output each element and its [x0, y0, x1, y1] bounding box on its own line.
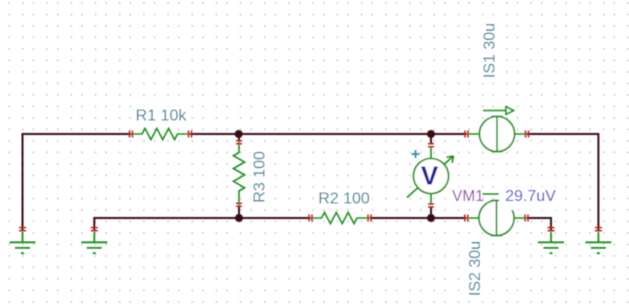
wire VM1 top stub [430, 134, 432, 145]
terminal marks R2 [309, 215, 371, 222]
svg-text:VM1: VM1 [452, 188, 484, 205]
resistor R1 [131, 128, 190, 139]
ground G4 [585, 232, 611, 253]
terminal marks R1 [130, 131, 192, 138]
voltmeter VM1 [407, 147, 454, 205]
terminal marks IS2 [465, 215, 528, 222]
wire bottom rail left: ground riser + bottom rail to R2 left node [94, 218, 310, 231]
terminal marks G1 [19, 228, 26, 231]
voltmeter plus sign [412, 150, 420, 158]
wire bottom rail middle: R2 right node to IS2 left node [370, 217, 466, 219]
terminal marks G3 [548, 228, 555, 231]
junction node top-right (VM1 top) [427, 130, 435, 138]
terminal marks VM1 [428, 144, 434, 207]
wire top rail left: left vertical + top rail to R1 left node [23, 134, 132, 231]
svg-text:29.7uV: 29.7uV [505, 188, 556, 205]
wire bottom rail right: IS2 right node to ground G3 [527, 218, 551, 231]
label background VM1 [451, 187, 482, 203]
label background value 29.7uV [499, 187, 560, 210]
ground G1 [10, 232, 36, 253]
wire R3 bottom stub [238, 207, 240, 219]
terminal marks G2 [91, 228, 98, 231]
wire top rail right: IS1 right node to right rail down to ground [527, 134, 598, 231]
resistor R2 [311, 212, 371, 223]
junction node bottom-left (R3 bottom) [235, 214, 243, 222]
label background IS2 [466, 242, 484, 298]
svg-text:V: V [421, 160, 439, 190]
junction node top-left (R3 top) [235, 130, 243, 138]
wire R3 top stub [238, 134, 240, 141]
ground G2 [81, 232, 107, 253]
svg-text:IS2 30u: IS2 30u [467, 241, 484, 296]
terminal marks IS1 [465, 131, 529, 138]
current source IS1 [467, 107, 528, 152]
wire top rail middle: R1 right node to IS1 left node [190, 133, 467, 135]
current source IS2 [466, 190, 526, 235]
ground G3 [538, 232, 564, 253]
label background R1 [134, 106, 189, 122]
resistor R3 (vertical) [233, 141, 244, 207]
label background R3 [251, 148, 268, 206]
svg-text:R2 100: R2 100 [318, 191, 370, 208]
svg-text:IS1 30u: IS1 30u [482, 23, 499, 78]
junction node bottom-right (VM1 bottom) [427, 214, 435, 222]
svg-text:R1 10k: R1 10k [136, 108, 188, 125]
label background R2 [316, 190, 372, 206]
wire VM1 bottom stub [430, 207, 432, 218]
svg-text:R3 100: R3 100 [252, 151, 269, 203]
terminal marks R3 [236, 141, 242, 207]
terminal marks G4 [595, 228, 602, 231]
label background IS1 [482, 23, 499, 79]
